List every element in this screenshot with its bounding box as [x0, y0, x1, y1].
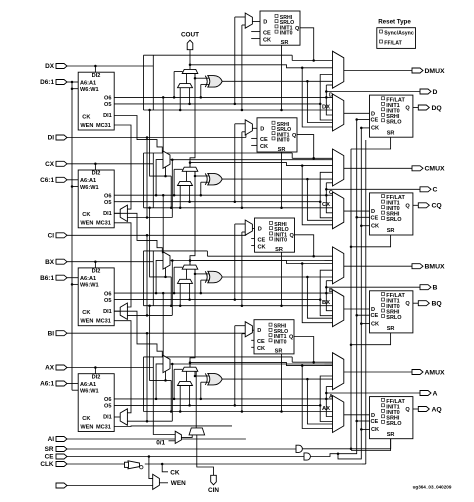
svg-text:CI: CI	[48, 233, 55, 240]
svg-text:CLK: CLK	[40, 461, 54, 468]
wire O6 riser into F8MUX (from below)	[155, 260, 163, 294]
svg-text:BI: BI	[48, 330, 55, 337]
label CX bypass	[322, 202, 330, 208]
label 0/1	[156, 439, 175, 446]
wire DI1 into F7AMUX	[114, 311, 162, 357]
svg-text:DMUX: DMUX	[425, 68, 445, 75]
svg-text:DI1: DI1	[103, 211, 112, 217]
svg-text:BMUX: BMUX	[425, 264, 445, 271]
wire C5FF CE CK stubs	[251, 138, 257, 145]
wire select rail of F8MUX	[148, 207, 172, 307]
svg-text:O5: O5	[104, 200, 111, 206]
net O6 B	[114, 292, 333, 295]
svg-text:Q: Q	[292, 133, 297, 139]
net O5 A	[114, 404, 321, 407]
wire XOR to DOUTMUX	[307, 81, 332, 122]
svg-text:Q: Q	[295, 26, 300, 32]
wire AI	[67, 438, 246, 440]
svg-text:D: D	[371, 111, 375, 117]
mux DMUX (wide function mux output)	[333, 51, 344, 88]
svg-text:SRLO: SRLO	[386, 119, 402, 125]
svg-text:DI2: DI2	[92, 374, 101, 380]
svg-text:CK: CK	[371, 427, 379, 433]
svg-text:BX: BX	[322, 300, 330, 306]
wire A5FFMUX inputs	[235, 326, 245, 413]
svg-text:D: D	[371, 413, 375, 419]
wire 01MUX out to CYINIT	[181, 435, 192, 438]
wire AX top rail to AMUX	[144, 357, 333, 412]
mux BOUTMUX	[333, 290, 344, 327]
wire BI line	[67, 332, 246, 421]
wire XOR output A	[222, 378, 332, 381]
net O5 C	[114, 200, 321, 203]
svg-text:CX: CX	[322, 202, 330, 208]
wire CX to LUT DI2 and bypass riser	[67, 153, 153, 208]
wire O5 riser up A	[320, 376, 332, 405]
wire O6 riser into F7AMUX (from above)	[162, 292, 165, 355]
write address bus (D6:1 to W6:W1 pins)	[71, 81, 74, 390]
wire carry DI-mux inputs D	[179, 88, 190, 112]
carry mux MUXCY D	[182, 69, 198, 73]
wire XOR output B	[222, 276, 332, 279]
svg-text:MC31: MC31	[96, 123, 111, 129]
mux COUTMUX	[333, 192, 344, 229]
mux DOUTMUX	[333, 94, 344, 131]
carry DI mux C	[178, 181, 193, 185]
svg-text:WEN: WEN	[80, 424, 93, 430]
svg-text:Q: Q	[405, 106, 410, 112]
wire CX bypass rail	[144, 207, 333, 209]
input CX connector	[45, 161, 67, 168]
svg-text:CMUX: CMUX	[425, 166, 445, 173]
wire BFF CE tap	[355, 314, 369, 317]
svg-text:WEN: WEN	[171, 480, 186, 487]
wire W6:W1 tap D	[72, 88, 78, 90]
mux F7BMUX	[163, 151, 170, 168]
wire chain into CDI1MUX input2	[127, 216, 172, 219]
wire C5FF Q to CMUX	[297, 135, 315, 160]
input C6:1 connector	[40, 177, 67, 184]
mux AMUX (wide function mux output)	[333, 353, 344, 390]
flip-flop A5FF (extra storage element)	[254, 320, 294, 355]
wire AX bypass rail	[144, 411, 333, 413]
svg-text:O5: O5	[104, 102, 111, 108]
input CI connector	[48, 233, 67, 240]
svg-text:O6: O6	[104, 96, 111, 102]
flip-flop C5FF (extra storage element)	[257, 118, 297, 153]
mux ADI1MUX	[120, 409, 127, 425]
input CIN connector	[208, 475, 219, 494]
wire SR to AFF	[390, 439, 392, 449]
wire DFF Q out	[413, 107, 418, 109]
wire AFF CK tap	[360, 428, 369, 431]
wire BFF CK tap	[360, 322, 369, 325]
svg-text:MC31: MC31	[96, 319, 111, 325]
net WEN	[159, 480, 186, 487]
output BQ connector	[418, 301, 441, 308]
wire XOR inputs C	[194, 171, 210, 195]
flip-flop DFF (storage element)	[370, 95, 413, 137]
wire DFF SR tap	[351, 137, 391, 149]
svg-text:W6:W1: W6:W1	[80, 283, 99, 289]
svg-text:SR: SR	[387, 130, 395, 136]
wire BX to LUT DI2 and bypass riser	[67, 251, 153, 306]
svg-text:SR: SR	[387, 228, 395, 234]
wire select rail of F7BMUX	[148, 109, 172, 209]
LUT B (A6LUT block)	[78, 268, 114, 326]
svg-text:Q: Q	[405, 407, 410, 413]
wire B6:1 to LUT A6:A1	[67, 277, 78, 279]
wire carry chain C to B	[190, 171, 195, 265]
svg-text:CE: CE	[258, 237, 266, 243]
figure reference label	[413, 485, 452, 490]
input SR connector	[45, 446, 67, 453]
svg-text:B: B	[329, 288, 333, 294]
svg-text:A6:A1: A6:A1	[80, 178, 96, 184]
wire DI line	[67, 134, 246, 218]
wire XOR to COUTMUX	[307, 179, 332, 220]
wire select rail of F7AMUX	[148, 304, 172, 412]
wire CK riser	[361, 140, 366, 464]
carry DI mux D	[178, 84, 193, 88]
wire F7BMUX out down to CDI1MUX	[171, 160, 173, 218]
wire BFF Q out	[413, 302, 418, 304]
svg-text:AQ: AQ	[432, 406, 442, 413]
svg-text:WEN: WEN	[80, 123, 93, 129]
svg-text:DI2: DI2	[92, 73, 101, 79]
wire XOR output C	[222, 178, 332, 181]
svg-text:SRLO: SRLO	[386, 217, 402, 223]
svg-text:C: C	[329, 190, 333, 196]
svg-text:C: C	[433, 187, 438, 194]
wire O6 riser / C output	[325, 183, 420, 196]
svg-text:Q: Q	[405, 301, 410, 307]
svg-text:Reset Type: Reset Type	[378, 18, 411, 25]
net O6 D	[114, 96, 333, 99]
wire WEN input	[67, 485, 153, 487]
svg-text:CIN: CIN	[208, 487, 219, 494]
svg-text:W6:W1: W6:W1	[80, 185, 99, 191]
wire O6 to AOUTMUX	[326, 399, 332, 417]
wire CO to DOUTMUX	[302, 68, 332, 127]
svg-text:DQ: DQ	[432, 105, 442, 112]
svg-text:WEN: WEN	[80, 319, 93, 325]
wire BDI1MUX output	[114, 310, 120, 312]
clock buffer	[125, 461, 144, 469]
flip-flop AFF (storage element)	[370, 397, 413, 439]
svg-text:A6:1: A6:1	[40, 381, 54, 388]
wire O6 riser / A output	[325, 387, 420, 400]
svg-text:CE: CE	[371, 118, 379, 124]
wire O5 riser D	[320, 104, 332, 120]
node carry-out C	[189, 161, 333, 167]
svg-text:CK: CK	[260, 144, 268, 150]
svg-text:INIT0: INIT0	[274, 339, 287, 345]
svg-text:FF/LAT: FF/LAT	[384, 41, 402, 47]
svg-text:W6:W1: W6:W1	[80, 87, 99, 93]
svg-text:CX: CX	[45, 161, 55, 168]
carry DI mux B	[178, 279, 193, 283]
svg-text:SR: SR	[45, 446, 54, 453]
wire CO to AOUTMUX	[302, 366, 332, 429]
svg-text:DI2: DI2	[92, 171, 101, 177]
wire BX top rail to BMUX	[144, 251, 333, 306]
wire CO to COUTMUX	[302, 166, 332, 225]
wire O6 riser / D output	[325, 85, 420, 98]
svg-text:CE: CE	[371, 313, 379, 319]
svg-text:BX: BX	[45, 259, 55, 266]
wire F8MUX output	[170, 259, 333, 262]
flip-flop BFF (storage element)	[370, 291, 413, 333]
net O5 B	[114, 298, 321, 301]
wire B5FF CE CK stubs	[251, 239, 254, 246]
svg-text:0/1: 0/1	[156, 439, 165, 446]
wire C5FFMUX inputs	[235, 124, 245, 209]
wire MUXCY select from O6 C	[174, 169, 182, 195]
svg-text:CE: CE	[260, 137, 268, 143]
mux CDI1MUX	[120, 205, 127, 221]
wire carry DI-mux inputs C	[179, 186, 190, 210]
wire MUXCY-DI link D	[186, 74, 188, 84]
wire F7BMUX output	[170, 158, 333, 161]
output BMUX connector	[344, 264, 445, 271]
svg-text:AI: AI	[48, 436, 55, 443]
wire W6:W1 tap B	[72, 283, 78, 285]
flip-flop B5FF (extra storage element)	[255, 218, 295, 253]
wire DOUTMUX to DFF D	[344, 112, 370, 114]
wire chain into ADI1MUX input2	[127, 420, 172, 423]
wire D5FF CE CK stubs	[251, 32, 260, 39]
svg-text:CK: CK	[170, 470, 180, 477]
output CMUX connector	[344, 166, 445, 173]
xor gate XORCY C	[205, 173, 222, 185]
wire B5FFMUX inputs	[235, 224, 245, 307]
mux BDI1MUX	[120, 303, 127, 319]
node carry-out B	[189, 259, 333, 265]
input A6:1 connector	[40, 381, 67, 388]
input D6:1 connector	[40, 79, 67, 86]
xor gate XORCY D	[205, 76, 222, 88]
wire DX bypass rail	[144, 109, 333, 111]
svg-text:INIT0: INIT0	[277, 138, 290, 144]
net CE line	[67, 120, 361, 461]
svg-text:CE: CE	[257, 339, 265, 345]
wire XOR to AOUTMUX	[307, 379, 332, 424]
wire carry chain B to A	[190, 269, 195, 367]
svg-text:DI1: DI1	[103, 309, 112, 315]
input DX connector	[45, 63, 67, 70]
wire MUXCY-DI link A	[186, 371, 188, 381]
svg-text:CE: CE	[371, 215, 379, 221]
legend Reset Type	[377, 18, 416, 48]
svg-text:A6:A1: A6:A1	[80, 80, 96, 86]
wire carry chain D to C	[190, 74, 195, 168]
net O6 A	[114, 398, 333, 401]
wire A5FF CE CK stubs	[251, 340, 254, 347]
wire D5FF Q to DMUX	[300, 28, 315, 62]
svg-text:SR: SR	[387, 432, 395, 438]
svg-text:O6: O6	[104, 397, 111, 403]
svg-text:D: D	[257, 328, 261, 334]
node carry-out A	[189, 361, 333, 367]
mux D5FFMUX (D input of D5FF)	[245, 13, 252, 28]
svg-text:Q: Q	[289, 335, 294, 341]
svg-text:DI1: DI1	[103, 113, 112, 119]
wire A5FF SR	[280, 354, 283, 413]
wire AX to LUT DI2 and bypass riser	[67, 357, 153, 412]
svg-text:A6:A1: A6:A1	[80, 382, 96, 388]
svg-text:SRLO: SRLO	[386, 315, 402, 321]
input DI connector	[48, 135, 67, 142]
mux F8MUX	[163, 252, 170, 269]
mux BMUX (wide function mux output)	[333, 247, 344, 284]
wire D5FF SR	[280, 45, 283, 111]
wire ADI1MUX output	[114, 416, 120, 418]
svg-text:A6:A1: A6:A1	[80, 276, 96, 282]
carry mux MUXCY B	[182, 265, 198, 269]
output COUT connector	[181, 32, 199, 50]
output C connector	[420, 187, 438, 194]
wire MC31 shift into ADI1MUX	[114, 321, 131, 413]
wire DX to LUT DI2 and bypass riser	[67, 55, 153, 110]
svg-text:CE: CE	[45, 454, 55, 461]
flip-flop CFF (storage element)	[370, 193, 413, 235]
output A connector	[420, 390, 438, 397]
mux F7AMUX	[163, 355, 170, 372]
wire CI line	[67, 234, 246, 315]
wire O6 to COUTMUX	[326, 195, 332, 213]
wire C5FF SR	[280, 152, 283, 209]
svg-text:SR: SR	[278, 147, 286, 153]
wire CFF SR tap	[350, 235, 391, 248]
svg-text:O5: O5	[104, 404, 111, 410]
wire CDI1MUX output	[114, 212, 120, 214]
input CLK connector	[40, 461, 67, 468]
svg-text:D: D	[433, 89, 438, 96]
LUT D (A6LUT block)	[78, 72, 114, 130]
svg-text:A: A	[329, 394, 333, 400]
LUT C (A6LUT block)	[78, 170, 114, 228]
wire DFF CE tap	[355, 118, 369, 121]
wire BFF SR tap	[350, 333, 391, 346]
wire DFF CK tap	[360, 127, 369, 129]
wire O5 riser C	[320, 202, 332, 218]
input BI connector	[48, 330, 67, 337]
wire AFF SR tap	[351, 439, 391, 451]
wire DI1 into F8MUX	[114, 213, 162, 253]
svg-text:CK: CK	[371, 126, 379, 132]
svg-text:Q: Q	[290, 233, 295, 239]
input CE connector	[45, 454, 67, 461]
svg-text:CK: CK	[82, 212, 90, 218]
wire F7AMUX out down to ADI1MUX	[171, 364, 173, 421]
wire DX top rail to DMUX	[144, 55, 333, 110]
label DX bypass	[322, 104, 330, 110]
wire O6 riser into F7BMUX (from below)	[155, 160, 163, 197]
carry DI mux A	[178, 381, 193, 385]
svg-text:O5: O5	[104, 298, 111, 304]
mux B5FFMUX (D input of B5FF)	[245, 220, 252, 235]
wire MC31 shift into CDI1MUX	[114, 125, 131, 209]
LUT A (A6LUT block)	[78, 374, 114, 432]
svg-text:BQ: BQ	[432, 301, 442, 308]
net CLK line	[67, 463, 127, 465]
svg-text:DX: DX	[45, 63, 55, 70]
svg-text:D: D	[371, 209, 375, 215]
svg-text:D: D	[258, 227, 262, 233]
carry mux MUXCY C	[182, 167, 198, 171]
svg-text:CK: CK	[371, 224, 379, 230]
svg-text:SR: SR	[275, 247, 283, 253]
flip-flop D5FF (extra storage element)	[260, 11, 300, 46]
wire C6:1 to LUT A6:A1	[67, 179, 78, 181]
wire CX top rail to CMUX	[144, 153, 333, 208]
input B6:1 connector	[40, 275, 67, 282]
wire AOUTMUX to AFF D	[344, 414, 370, 416]
wire SR riser	[350, 149, 353, 450]
wire O5 riser up D	[320, 75, 332, 104]
wire XOR inputs D	[194, 74, 210, 98]
wire D5FFMUX output	[252, 21, 260, 23]
svg-text:D: D	[329, 92, 333, 98]
mux WENMUX	[153, 474, 160, 489]
wire B5FF SR	[280, 252, 283, 307]
xor gate XORCY B	[205, 271, 222, 283]
svg-text:A: A	[433, 390, 438, 397]
wire A MC31 to bottom	[114, 425, 232, 428]
wire MUXCY-DI link B	[186, 269, 188, 279]
input AI connector	[48, 436, 67, 443]
wire B5FF Q to BMUX	[295, 235, 315, 258]
wire C5FFMUX output	[252, 127, 257, 129]
svg-text:Q: Q	[405, 203, 410, 209]
wire A5FFMUX output	[252, 329, 254, 331]
net CK line	[145, 463, 361, 477]
wire O6 riser / B output	[325, 281, 420, 294]
output AMUX connector	[344, 369, 445, 376]
carry mux MUXCY A	[182, 367, 198, 371]
svg-text:AMUX: AMUX	[425, 369, 445, 376]
mux CYINITMUX	[189, 428, 205, 435]
wire XOR output D	[222, 80, 332, 83]
svg-text:SR: SR	[281, 40, 289, 46]
wire O6 riser into F8MUX (from above)	[162, 194, 165, 252]
wire AFF CE tap	[355, 420, 369, 423]
wire CIN to CYINIT	[197, 435, 214, 475]
mux 01MUX (carry init 0/1)	[175, 431, 181, 443]
wire CFF CE tap	[355, 216, 369, 219]
mux A5FFMUX (D input of A5FF)	[245, 322, 252, 337]
svg-text:D: D	[371, 307, 375, 313]
wire MUXCY select from O6 B	[174, 267, 182, 293]
wire MUXCY select from O6 A	[174, 369, 182, 399]
svg-text:CK: CK	[371, 321, 379, 327]
svg-text:AX: AX	[45, 365, 55, 372]
svg-text:COUT: COUT	[181, 32, 199, 39]
svg-text:D6:1: D6:1	[40, 79, 54, 86]
wire XOR to BOUTMUX	[307, 277, 332, 318]
wire O5 riser up B	[320, 270, 332, 299]
output B connector	[420, 285, 438, 292]
wire O6 riser into F7BMUX (from above)	[162, 96, 165, 151]
wire D5FFMUX inputs	[235, 17, 245, 111]
svg-text:O6: O6	[104, 291, 111, 297]
wire 01MUX input AX	[153, 412, 175, 435]
svg-text:CK: CK	[82, 310, 90, 316]
wire MC31 shift into BDI1MUX	[114, 223, 131, 307]
wire O6 to BOUTMUX	[326, 293, 332, 311]
svg-text:Sync/Async: Sync/Async	[384, 31, 414, 37]
